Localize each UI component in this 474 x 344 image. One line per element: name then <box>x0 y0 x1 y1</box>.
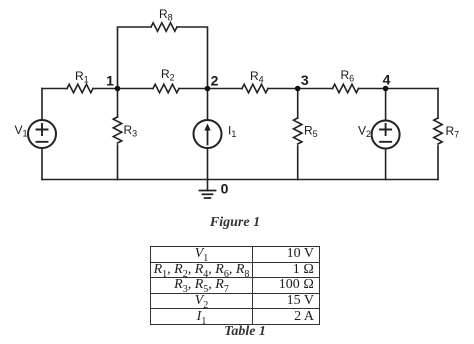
svg-text:V2: V2 <box>358 124 371 140</box>
svg-text:R7: R7 <box>446 124 460 140</box>
svg-text:I1: I1 <box>228 124 236 140</box>
svg-text:R2: R2 <box>161 67 175 83</box>
svg-text:V1: V1 <box>15 123 28 139</box>
svg-text:R1: R1 <box>75 69 89 85</box>
svg-text:3: 3 <box>301 72 309 88</box>
svg-text:0: 0 <box>221 181 229 197</box>
svg-text:1: 1 <box>106 73 114 89</box>
svg-text:R5: R5 <box>304 124 318 140</box>
svg-text:2: 2 <box>211 73 219 89</box>
svg-text:R8: R8 <box>159 7 173 23</box>
svg-text:R6: R6 <box>341 68 355 84</box>
svg-text:R3: R3 <box>124 123 138 139</box>
svg-text:R4: R4 <box>250 69 264 85</box>
svg-text:4: 4 <box>383 72 391 88</box>
